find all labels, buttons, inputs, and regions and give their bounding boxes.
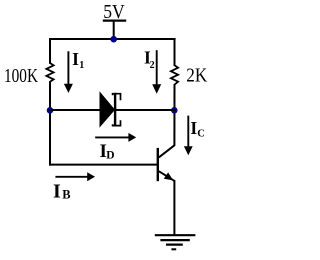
label I2 — [144, 48, 155, 71]
label I1 — [72, 49, 84, 71]
current arrow ID — [95, 133, 136, 142]
wire: left vertical upper — [49, 38, 51, 64]
svg-text:2: 2 — [150, 60, 155, 71]
diode D1 cathode top hook — [113, 94, 121, 101]
wire: diode rail right — [116, 109, 176, 111]
5V power bar — [103, 20, 126, 22]
node: right junction dot — [171, 107, 178, 114]
svg-text:I: I — [72, 49, 79, 69]
current arrow I2 — [152, 50, 161, 94]
resistor 100K zigzag — [46, 63, 53, 82]
current arrow IB — [55, 172, 95, 181]
wire: emitter vertical — [173, 180, 175, 235]
wire: diode rail left — [49, 109, 101, 111]
svg-text:D: D — [106, 149, 114, 161]
current arrow I1 — [64, 51, 73, 93]
wire: right vertical upper — [174, 38, 176, 66]
transistor Q1 collector diagonal — [159, 145, 175, 158]
wire: top rail — [49, 38, 176, 40]
svg-text:2K: 2K — [186, 65, 207, 87]
svg-text:100K: 100K — [4, 65, 38, 87]
svg-text:C: C — [197, 129, 205, 140]
diode D1 triangle (anode) — [100, 93, 114, 127]
transistor Q1 emitter diagonal — [159, 171, 174, 181]
diode D1 cathode bottom hook — [113, 120, 121, 125]
svg-text:1: 1 — [79, 60, 84, 71]
svg-text:B: B — [62, 188, 70, 202]
node: top junction dot — [110, 36, 117, 43]
transistor Q1 base bar — [157, 148, 159, 181]
label IC — [190, 118, 204, 139]
transistor Q1 emitter arrowhead — [164, 172, 173, 180]
diode D1 cathode bar — [114, 93, 116, 127]
current arrow IC — [184, 116, 193, 156]
label ID — [100, 141, 115, 162]
wire: 5V stub — [113, 21, 115, 39]
node: left junction dot — [47, 107, 54, 114]
svg-text:I: I — [53, 180, 61, 202]
wire: right vertical mid — [173, 84, 175, 145]
resistor 2K zigzag — [171, 65, 178, 84]
wire: left vertical lower — [49, 81, 51, 165]
wire: base rail (bottom) — [49, 164, 158, 166]
ground — [155, 235, 196, 249]
label IB — [53, 180, 71, 202]
